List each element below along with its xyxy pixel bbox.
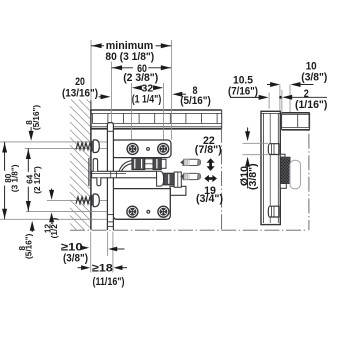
dim ≥10 (3/8&quot;) — [61, 242, 125, 265]
screw S1 (top-left) — [127, 143, 138, 154]
svg-text:(3/8"): (3/8") — [247, 163, 259, 190]
ext line below x=112.9 — [112, 232, 114, 273]
panel screw lower — [76, 194, 99, 207]
rear hook strip — [107, 123, 113, 230]
svg-text:(5/16"): (5/16") — [24, 233, 33, 259]
extension line x=111.5 — [111, 62, 113, 123]
vertical centerline side view — [308, 112, 310, 230]
panel screw upper — [76, 140, 99, 153]
extension line x=171.5 (front edge) — [171, 40, 173, 140]
horizontal adjust icon — [204, 175, 217, 182]
dim 64 (2 1/2&quot;) rotated text — [26, 166, 42, 194]
ext line below x=107.6 — [107, 232, 109, 257]
dim 8 (5/16&quot;) upper left text — [25, 105, 41, 131]
ext line x=280 upper — [279, 85, 281, 112]
dim 12 arrows — [49, 189, 54, 223]
svg-text:(2 1/2"): (2 1/2") — [33, 166, 42, 194]
pilot hole top — [147, 148, 150, 151]
text bg 80 — [3, 171, 12, 186]
vertical centerline front view — [221, 128, 223, 230]
bracket bottom plate tab — [170, 186, 186, 195]
ext lines euro screw dia — [243, 143, 269, 154]
svg-text:20: 20 — [75, 76, 85, 88]
svg-text:minimum: minimum — [106, 40, 154, 52]
screw S2 (top-right) — [158, 143, 169, 154]
svg-text:(5/16"): (5/16") — [32, 105, 41, 131]
dim line 64 vertical — [26, 148, 31, 211]
dim 80 (3 1/8&quot;) rotated text — [4, 164, 20, 192]
euro screw side view top — [268, 144, 279, 155]
dim line 80 vertical — [2, 142, 7, 219]
svg-text:(11/16"): (11/16") — [93, 276, 125, 288]
horizontal centerline — [70, 229, 307, 231]
knurl shoulder bottom — [280, 183, 286, 188]
dim minimum row — [91, 40, 171, 52]
svg-text:≥18: ≥18 — [92, 262, 113, 274]
euro screw side view bottom — [268, 206, 279, 217]
svg-text:(1 1/4"): (1 1/4") — [132, 94, 162, 106]
extension line x=163.5 (screw col 2) — [163, 83, 165, 144]
ext line x=281.9 upper — [281, 90, 283, 112]
ext line D screw-row2 y=211.6 — [26, 211, 113, 213]
svg-text:32: 32 — [142, 82, 154, 94]
extension line at panel face x=91 — [90, 40, 92, 110]
svg-text:(5/16"): (5/16") — [180, 95, 211, 107]
dim 32 row — [132, 82, 163, 94]
ext line x=269.1 — [268, 93, 270, 109]
bracket plate side view — [261, 111, 280, 224]
runner arm — [89, 158, 157, 186]
extension line x=131.5 (screw col 1) — [131, 83, 133, 144]
dim Ø10 (3/8&quot;) rotated text — [238, 163, 258, 190]
knurl shoulder top — [280, 154, 285, 157]
clamp mechanism upper row — [119, 158, 166, 171]
ext line x=290 — [289, 85, 291, 113]
dim 12 (1/2&quot;) rotated text — [44, 217, 59, 238]
svg-text:(3/4"): (3/4") — [196, 193, 223, 205]
euro screw icon 1 — [180, 159, 200, 165]
dim 22 (7/8&quot;) label — [195, 135, 222, 156]
hatched back-panel section — [70, 100, 91, 230]
dim 8 lower-left arrow — [30, 221, 35, 232]
dim 8 (5/16&quot;) lower left text — [18, 233, 34, 259]
drawer runner rail (front view) — [90, 110, 222, 129]
svg-text:(7/8"): (7/8") — [195, 144, 222, 156]
svg-text:(3/8"): (3/8") — [301, 72, 327, 84]
euro screw icon 2 — [180, 173, 200, 179]
dim ≥18 (11/16&quot;) — [78, 262, 128, 288]
ext line A plate-top y=141.9 — [0, 141, 112, 143]
ext line below x=90.7 — [90, 232, 92, 273]
dim 10.5 (7/16&quot;) — [228, 75, 269, 100]
side panel section (side view) — [282, 113, 310, 130]
dim (1 1/4&quot;) label — [132, 94, 162, 106]
dim 19 (3/4&quot;) label — [196, 185, 223, 205]
dim 10 (3/8&quot;) top right — [267, 61, 328, 88]
dim 60 row — [112, 63, 172, 75]
svg-text:(3/8"): (3/8") — [63, 253, 88, 265]
dim (2 3/8&quot;) label — [123, 72, 158, 84]
dim 80 (3 1/8&quot;) label — [105, 51, 154, 63]
knurled dowel — [281, 157, 290, 184]
back-panel front face line — [90, 101, 92, 230]
pilot hole bottom — [147, 210, 150, 213]
svg-text:(1/16"): (1/16") — [295, 99, 328, 111]
dim 20 (13/16&quot;) — [62, 76, 111, 100]
dim Ø10 arrows — [245, 128, 250, 189]
bracket top plate — [112, 140, 171, 158]
svg-text:(3 1/8"): (3 1/8") — [11, 164, 20, 192]
ext line B screw-row1 y=148.4 — [25, 147, 112, 149]
dim 8 (5/16&quot;) upper right — [172, 85, 211, 107]
dowel hole outline — [290, 160, 301, 189]
svg-text:80 (3 1/8"): 80 (3 1/8") — [105, 51, 154, 63]
clamp mechanism lower row — [157, 171, 182, 187]
svg-text:(13/16"): (13/16") — [62, 87, 98, 99]
screw S3 (bottom-left) — [127, 206, 138, 217]
dim 8 upper-left arrow — [29, 127, 34, 141]
text bg 64 — [25, 172, 33, 187]
dim 2 (1/16&quot;) — [279, 88, 328, 111]
ext line C lower-screw axis y=200.4 — [47, 199, 108, 201]
ext line E plate-bottom y=219.3 — [0, 218, 113, 220]
vertical adjust icon — [207, 158, 215, 171]
svg-text:(7/16"): (7/16") — [228, 86, 258, 98]
screw S4 (bottom-right) — [158, 206, 169, 217]
bracket bottom plate — [113, 189, 170, 220]
